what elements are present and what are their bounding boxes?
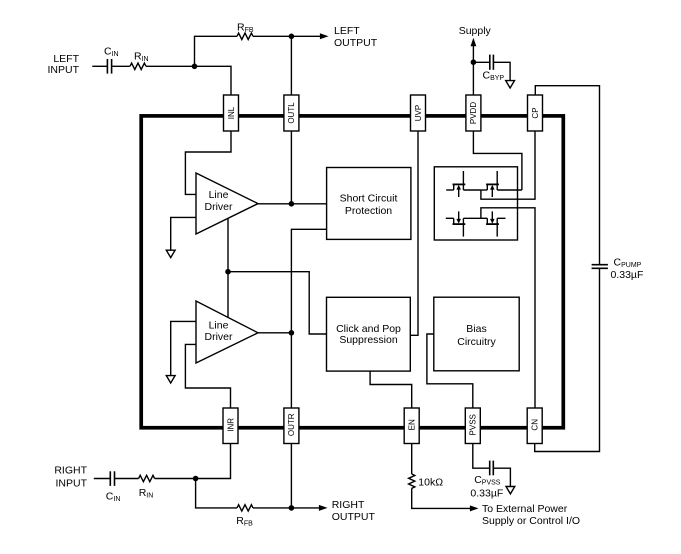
- wire RFB to left output node: [253, 35, 291, 37]
- svg-text:CP: CP: [531, 107, 540, 118]
- wire right input node down to RFB: [196, 479, 237, 508]
- node left input junction: [192, 64, 198, 70]
- capacitor CPUMP: [592, 265, 608, 269]
- svg-text:Protection: Protection: [345, 205, 392, 217]
- svg-text:INL: INL: [227, 106, 236, 119]
- ground (U1): [166, 250, 175, 257]
- arrow left output: [320, 33, 329, 39]
- svg-text:PVDD: PVDD: [469, 102, 478, 124]
- node supply junction: [471, 59, 477, 65]
- transistor Q2 leads: [481, 171, 522, 197]
- resistor 10k: [409, 474, 415, 488]
- transistor Q4 leads: [481, 211, 506, 236]
- wire CPVSS to ground: [494, 468, 511, 486]
- ground (CPVSS): [506, 487, 515, 494]
- wire OUTL pin down to U1 output: [290, 131, 292, 204]
- svg-text:RFB: RFB: [237, 22, 254, 35]
- wire Bias Circuitry to PVSS pin: [427, 334, 473, 408]
- wire Click and Pop to EN pin: [370, 371, 412, 408]
- svg-text:INPUT: INPUT: [48, 64, 80, 76]
- svg-text:Circuitry: Circuitry: [457, 336, 496, 348]
- transistor Q3 leads: [446, 211, 481, 236]
- capacitor CIN (right): [110, 471, 114, 486]
- wire CP internal to charge pump: [481, 131, 535, 199]
- arrow to external power: [470, 505, 479, 511]
- svg-text:Line: Line: [209, 189, 229, 201]
- wire U2 output to OUTR node: [258, 332, 291, 334]
- wire OUTR pin up to U2 output: [290, 333, 292, 408]
- wire SCP to OUTR net: [291, 229, 326, 332]
- node right input junction: [193, 476, 199, 482]
- wire CP to CPUMP top: [535, 86, 599, 265]
- svg-text:0.33µF: 0.33µF: [470, 488, 503, 500]
- wire right input node to INR pin: [196, 441, 231, 479]
- svg-text:RIN: RIN: [134, 51, 149, 64]
- svg-text:EN: EN: [408, 419, 417, 430]
- wire U1 output to SCP: [258, 203, 327, 205]
- pin INL: [224, 95, 239, 131]
- wire UVP internal to Click and Pop: [410, 131, 418, 335]
- wire U1 feedback tap: [227, 219, 229, 272]
- resistor RFB (right): [237, 505, 253, 511]
- svg-text:Click and Pop: Click and Pop: [336, 323, 401, 335]
- resistor RFB (left): [237, 33, 253, 39]
- wire INR internal to U2: [185, 344, 230, 408]
- svg-text:Short Circuit: Short Circuit: [340, 193, 398, 205]
- svg-text:CBYP: CBYP: [483, 70, 505, 83]
- svg-text:0.33µF: 0.33µF: [611, 269, 644, 281]
- svg-text:OUTPUT: OUTPUT: [334, 37, 378, 49]
- svg-text:PVSS: PVSS: [469, 414, 478, 435]
- svg-text:Line: Line: [209, 320, 229, 332]
- node feedback junction: [225, 269, 231, 275]
- wire left output arrow shaft: [291, 35, 321, 37]
- svg-text:RFB: RFB: [236, 515, 253, 528]
- wire feedback node to U2 input: [227, 272, 229, 318]
- pin OUTL: [284, 95, 299, 131]
- wire Supply to PVDD: [472, 43, 474, 95]
- arrow right output: [319, 505, 328, 511]
- resistor RIN (left): [130, 63, 146, 69]
- svg-text:Supply or Control I/O: Supply or Control I/O: [482, 515, 580, 527]
- wire CBYP to ground: [494, 62, 511, 80]
- svg-text:CPVSS: CPVSS: [474, 474, 501, 487]
- arrow Supply: [471, 38, 477, 46]
- svg-text:10kΩ: 10kΩ: [418, 476, 443, 488]
- resistor RIN (right): [139, 475, 155, 481]
- wire EN to 10k resistor: [411, 441, 413, 474]
- svg-text:To External Power: To External Power: [482, 503, 568, 515]
- svg-text:Driver: Driver: [205, 331, 234, 343]
- wire RFB to right output node: [253, 507, 291, 509]
- wire input node up to RFB: [195, 36, 238, 66]
- block charge pump: [434, 167, 517, 240]
- svg-text:CN: CN: [531, 419, 540, 431]
- pin EN: [404, 408, 419, 444]
- block Bias Circuitry: [434, 297, 519, 371]
- wire right output arrow shaft: [291, 507, 320, 509]
- IC body outline: [141, 116, 563, 428]
- wire INL internal to line driver U1: [185, 131, 231, 194]
- svg-text:CIN: CIN: [104, 46, 119, 59]
- svg-text:INR: INR: [226, 418, 235, 432]
- transistor Q1 leads: [446, 171, 481, 197]
- svg-text:OUTR: OUTR: [287, 413, 296, 436]
- wire supply node to CBYP: [473, 61, 489, 63]
- wire feedback node to Click and Pop: [228, 272, 327, 334]
- wire U1 ground lead: [171, 217, 196, 250]
- svg-text:Supply: Supply: [459, 25, 492, 37]
- wire PVSS to CPVSS: [473, 441, 490, 468]
- op-amp U2 Line Driver: [196, 301, 258, 363]
- pin PVDD: [466, 95, 481, 131]
- ground (CBYP): [506, 81, 515, 88]
- node left output junction: [289, 34, 295, 40]
- wire RIN to input node: [146, 65, 195, 67]
- ground (U2): [166, 376, 175, 383]
- wire PVDD internal to charge pump: [473, 131, 522, 190]
- capacitor CIN (left): [107, 59, 111, 74]
- svg-text:RIGHT: RIGHT: [332, 499, 365, 511]
- pin OUTR: [284, 408, 299, 444]
- wire 10k to external arrow: [412, 488, 471, 508]
- wire U2 ground lead: [171, 321, 196, 375]
- op-amp U1 Line Driver: [196, 173, 258, 234]
- svg-text:INPUT: INPUT: [56, 477, 88, 489]
- node U1 output junction: [289, 201, 295, 207]
- svg-text:OUTPUT: OUTPUT: [332, 511, 376, 523]
- wire LEFT INPUT lead: [92, 65, 107, 67]
- pin UVP: [411, 95, 426, 131]
- svg-text:Driver: Driver: [205, 201, 234, 213]
- svg-text:CPUMP: CPUMP: [614, 257, 642, 270]
- wire CIN to RIN: [112, 65, 130, 67]
- capacitor CPVSS: [490, 461, 494, 476]
- wire RIN to right input node: [155, 478, 196, 480]
- wire RIGHT INPUT lead: [94, 478, 110, 480]
- block Short Circuit Protection: [327, 168, 411, 240]
- wire CN internal to charge pump: [481, 208, 535, 408]
- pin PVSS: [465, 408, 480, 444]
- svg-text:CIN: CIN: [106, 491, 121, 504]
- wire CPUMP bottom to CN: [535, 269, 600, 452]
- svg-text:LEFT: LEFT: [334, 25, 360, 37]
- svg-text:Suppression: Suppression: [339, 334, 398, 346]
- pin INR: [223, 408, 238, 444]
- svg-text:RIGHT: RIGHT: [54, 464, 87, 476]
- capacitor CBYP: [490, 55, 494, 70]
- svg-text:OUTL: OUTL: [287, 102, 296, 124]
- svg-text:Bias: Bias: [466, 323, 486, 335]
- wire OUTL pin up to output node: [290, 36, 292, 95]
- pin CP: [528, 95, 543, 131]
- pin CN: [527, 408, 542, 444]
- wire input node to INL pin: [195, 66, 232, 95]
- wire CIN to RIN (right): [115, 478, 139, 480]
- svg-text:RIN: RIN: [139, 487, 154, 500]
- wire OUTR pin down to right output node: [290, 441, 292, 508]
- node right output junction: [289, 505, 295, 511]
- svg-text:UVP: UVP: [414, 105, 423, 121]
- node U2 output junction: [289, 330, 295, 336]
- block Click and Pop Suppression: [327, 297, 411, 371]
